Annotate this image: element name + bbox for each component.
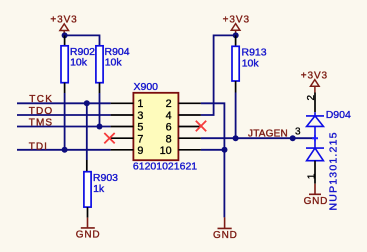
svg-text:10k: 10k [105, 57, 123, 69]
resistor R903 top pin [86, 160, 88, 172]
junction dot R913/JTAGEN [233, 135, 239, 141]
junction dot at +3V3 P2 [233, 32, 239, 38]
junction dot TCK / R903 [84, 100, 90, 106]
wire +3V3 rail to R904 [65, 35, 100, 45]
no-connect X on pin 7 [104, 133, 114, 143]
svg-text:3: 3 [295, 127, 301, 138]
diode D904 top diode (cathode bar + triangle) [306, 112, 324, 148]
diode D904 pin 2 lead [314, 93, 316, 113]
wire R902 to TDI [64, 93, 66, 150]
pin 9 stub [111, 149, 134, 151]
svg-text:10k: 10k [242, 57, 260, 69]
junction dot JTAGEN wire [290, 135, 296, 141]
svg-text:6: 6 [166, 122, 172, 134]
pin 10 stub [179, 149, 201, 151]
wire R903 riser from TCK [86, 103, 88, 160]
pin 1 stub [111, 102, 134, 104]
pin 3 connection cross on D904 [312, 135, 318, 141]
svg-text:GND: GND [213, 230, 238, 241]
resistor R904 bottom pin [99, 83, 101, 93]
svg-text:5: 5 [137, 122, 143, 134]
wire pin10 [201, 149, 225, 151]
pin 6 stub [179, 126, 201, 128]
wire R904 to TMS [99, 93, 101, 127]
svg-text:NUP1301.215: NUP1301.215 [327, 131, 339, 210]
resistor R913 bottom pin [235, 81, 237, 93]
junction dot at +3V3 P1 [62, 32, 68, 38]
power +3V3 symbol P3 triangle [311, 80, 320, 93]
svg-text:1: 1 [137, 98, 143, 110]
svg-text:D904: D904 [326, 109, 351, 121]
resistor R903 bottom pin [87, 207, 89, 218]
svg-text:8: 8 [166, 133, 172, 145]
resistor R904 body [96, 46, 103, 83]
connector X900 box [133, 93, 178, 160]
svg-text:7: 7 [137, 133, 143, 145]
wire TCK [17, 102, 111, 104]
svg-text:X900: X900 [134, 81, 159, 93]
wire TMS [17, 126, 111, 128]
svg-text:61201021621: 61201021621 [133, 161, 197, 173]
no-connect X on pin 6 [196, 121, 206, 131]
pin 8 stub [179, 137, 201, 139]
junction dot pin2/pin10/GND [222, 147, 228, 153]
pin 2 stub [179, 102, 201, 104]
svg-text:TMS: TMS [29, 118, 53, 129]
svg-text:10k: 10k [70, 57, 88, 69]
resistor R913 body [232, 46, 239, 81]
svg-text:TCK: TCK [29, 94, 53, 105]
wire JTAGEN pin8 to NUP pin3 [201, 137, 315, 139]
svg-text:GND: GND [76, 230, 101, 241]
pin 7 stub [111, 137, 134, 139]
ground GND under D904 [309, 184, 321, 195]
ground GND under R903 [81, 218, 95, 228]
wire pin2 to GND riser [201, 103, 225, 150]
svg-text:10: 10 [160, 145, 172, 157]
diode D904 pin 1 lead [314, 161, 316, 184]
svg-text:2: 2 [306, 94, 317, 100]
pin 3 stub [111, 114, 134, 116]
svg-text:1: 1 [306, 173, 317, 179]
power +3V3 symbol P2 triangle [231, 24, 240, 33]
resistor R903 body [84, 172, 91, 207]
resistor R902 bottom pin [64, 83, 66, 93]
wire down to GND under X900 [223, 150, 225, 218]
svg-text:2: 2 [166, 98, 172, 110]
wire R913 to JTAGEN [235, 93, 237, 139]
svg-text:TDO: TDO [29, 106, 53, 117]
diode D904 bottom diode (cathode bar + triangle) [306, 148, 324, 161]
ground GND under X900 [218, 217, 232, 228]
svg-text:JTAGEN: JTAGEN [248, 129, 288, 140]
svg-text:GND: GND [304, 196, 329, 207]
wire TDI [17, 149, 111, 151]
wire TDO [17, 114, 111, 116]
svg-text:1k: 1k [93, 183, 105, 195]
svg-text:3: 3 [137, 110, 143, 122]
pin 5 stub [111, 126, 134, 128]
resistor R902 top pin [64, 35, 66, 45]
junction dot TDI / R902 [62, 147, 68, 153]
svg-text:4: 4 [166, 110, 172, 122]
wire pin4 to +3V3 riser [201, 35, 236, 115]
junction dot TMS / R904 [97, 124, 103, 130]
resistor R913 top pin [235, 35, 237, 46]
svg-text:9: 9 [137, 145, 143, 157]
svg-text:TDI: TDI [29, 141, 48, 152]
power +3V3 symbol P1 triangle [60, 24, 69, 33]
pin 4 stub [179, 114, 201, 116]
resistor R902 body [61, 46, 68, 83]
